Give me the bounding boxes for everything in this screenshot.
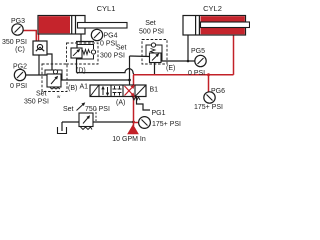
gauge PG1	[139, 110, 181, 128]
valve D arrow	[73, 50, 79, 56]
svg-text:Set: Set	[145, 20, 156, 27]
relief valve 750 arrow	[83, 117, 89, 124]
pump flow source triangle	[128, 125, 138, 134]
svg-text:175+ PSI: 175+ PSI	[194, 104, 223, 111]
valve B enclosure	[42, 64, 67, 92]
svg-text:PG4: PG4	[104, 33, 118, 40]
valve A p1 arrows	[102, 88, 104, 96]
wire CYL2 cap port down	[187, 35, 189, 61]
svg-text:B1: B1	[150, 87, 159, 94]
wire valve C red entry from CYL1 cap	[38, 34, 40, 41]
svg-text:A1: A1	[80, 84, 89, 91]
wire red R1 upper valve A to R2	[133, 75, 135, 85]
wire valve D bottom port	[76, 58, 78, 73]
wire valve A tank staircase drain	[137, 97, 151, 111]
svg-text:Set: Set	[36, 91, 47, 98]
valve B relief arrow	[51, 77, 57, 84]
cylinder CYL2 piston	[196, 16, 200, 36]
wire red R1 lower pump riser	[133, 97, 135, 127]
svg-text:PG5: PG5	[191, 48, 205, 55]
wire red pump R2 horizontal	[133, 74, 234, 76]
valve D body	[71, 48, 82, 58]
wire valve E left port	[130, 55, 151, 58]
gauge PG5	[188, 48, 206, 77]
wire PG3 red line to valve C	[24, 31, 37, 42]
junction node L2/B-line	[128, 79, 131, 82]
cylinder CYL1 rod	[78, 23, 128, 29]
wire PG2 to valve B inlet	[26, 74, 48, 76]
svg-text:500 PSI: 500 PSI	[139, 29, 164, 36]
svg-text:750 PSI: 750 PSI	[85, 106, 110, 113]
wire valve C bottom port	[38, 55, 40, 75]
svg-text:10 GPM In: 10 GPM In	[112, 136, 146, 143]
svg-text:175+ PSI: 175+ PSI	[152, 121, 181, 128]
cylinder CYL2 rod-side red fluid	[201, 16, 245, 34]
valve E relief arrow	[152, 55, 158, 61]
valve B relief body	[47, 74, 61, 87]
svg-text:(B): (B)	[68, 85, 77, 92]
relief valve 750 pilot	[95, 109, 97, 122]
wire 750 relief outlet to tank	[62, 121, 79, 123]
svg-text:0 PSI: 0 PSI	[10, 83, 27, 90]
wire valve C side elbow into valve B check	[46, 54, 52, 70]
valve C check seat	[36, 47, 44, 51]
gauge PG4	[91, 29, 117, 47]
junction node PG6 tap	[207, 73, 210, 76]
svg-text:PG1: PG1	[152, 110, 166, 117]
cylinder CYL1 cap-side red fluid	[39, 16, 70, 33]
svg-text:(C): (C)	[15, 47, 25, 54]
junction node CYL2 cap / PG5 line	[187, 60, 190, 63]
svg-text:300 PSI: 300 PSI	[100, 53, 125, 60]
gauge PG3	[2, 18, 27, 54]
svg-text:0 PSI: 0 PSI	[188, 70, 205, 77]
valve D spring	[83, 50, 91, 55]
svg-text:(A): (A)	[116, 100, 125, 107]
svg-text:(E): (E)	[166, 65, 175, 72]
wire valve E right line to PG5	[162, 60, 195, 62]
wire B-line vertical valve E to valve A	[129, 56, 131, 85]
svg-text:CYL1: CYL1	[97, 4, 116, 13]
wire tank feed	[61, 122, 63, 131]
valve C body	[33, 41, 47, 55]
junction node pump/relief	[132, 121, 135, 124]
cylinder CYL1 barrel	[38, 16, 85, 35]
relief valve 750 body	[79, 113, 93, 127]
svg-text:Set: Set	[116, 45, 127, 52]
svg-text:350 PSI: 350 PSI	[2, 39, 27, 46]
valve E check loop	[146, 45, 162, 61]
cylinder CYL2 rod	[201, 22, 250, 28]
wire red PG1 tap	[134, 122, 139, 124]
svg-text:350 PSI: 350 PSI	[24, 99, 49, 106]
wire L2 valve B outlet to valve A port	[61, 79, 130, 81]
valve A p2 closed center	[113, 86, 122, 89]
wire CYL1 rod port down	[80, 34, 82, 42]
wire valve D top port	[76, 42, 78, 49]
svg-text:(D): (D)	[76, 68, 86, 75]
svg-text:CYL2: CYL2	[203, 4, 222, 13]
gauge PG6	[194, 88, 225, 111]
valve A p3 red crossed arrows	[125, 86, 134, 96]
valve B check ball	[53, 70, 57, 74]
wire L1 valve D to pump line with hop over B-line	[77, 69, 134, 75]
valve E relief body	[150, 53, 162, 63]
wire CYL1 rod line to PG4 tap	[76, 41, 94, 43]
gauge PG2	[10, 64, 27, 91]
valve C check ball	[37, 44, 42, 49]
svg-text:w: w	[57, 94, 61, 99]
relief valve 750 spring	[81, 127, 93, 130]
op valve A body	[90, 85, 146, 97]
valve D enclosure	[67, 43, 99, 64]
svg-text:Set: Set	[63, 106, 74, 113]
valve A return spring	[133, 97, 141, 100]
valve D check loop	[77, 45, 94, 60]
wire red R3 CYL2 rod port	[233, 35, 235, 75]
svg-text:0 PSI: 0 PSI	[100, 41, 117, 48]
cylinder CYL1 piston	[72, 16, 76, 34]
wire 750 relief inlet to pump junction	[93, 121, 134, 123]
valve B check loop	[45, 70, 62, 80]
tank symbol	[58, 127, 67, 134]
valve D check ball	[91, 50, 95, 54]
valve E enclosure	[142, 40, 167, 65]
valve B spring	[50, 88, 60, 90]
valve E check ball	[151, 43, 155, 47]
wire valve E bottom port	[154, 62, 156, 75]
wire red PG6 drop	[208, 75, 210, 92]
solenoid B1 symbol	[136, 86, 146, 97]
valve E spring	[151, 49, 156, 54]
cylinder CYL2 barrel	[183, 16, 246, 36]
solenoid A1 symbol	[91, 86, 99, 97]
